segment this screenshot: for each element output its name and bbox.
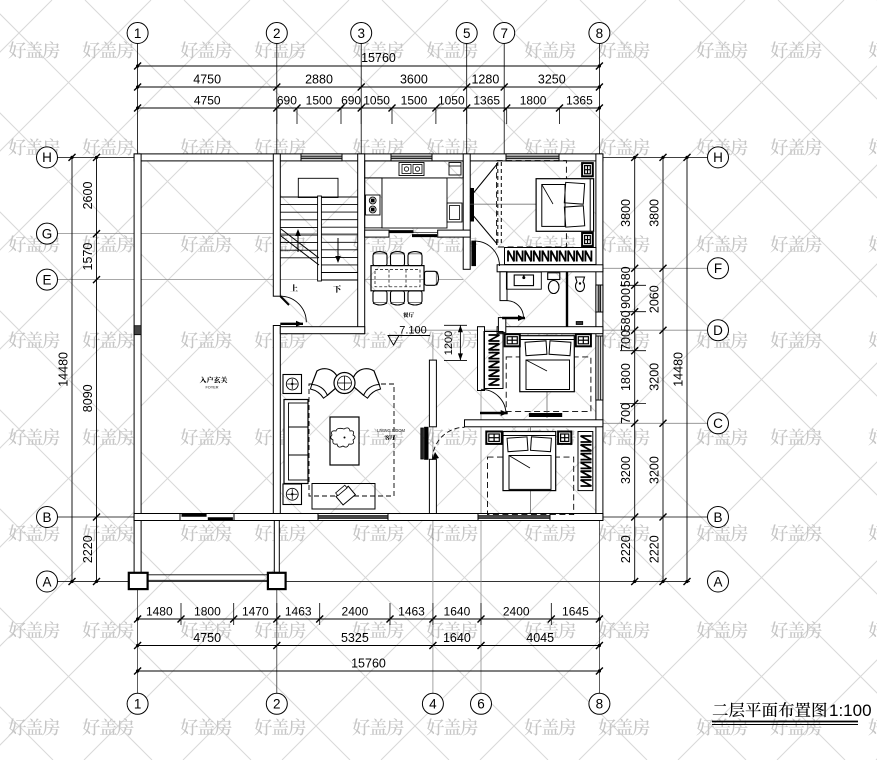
svg-text:5: 5 (463, 26, 471, 41)
svg-text:1640: 1640 (444, 605, 471, 619)
svg-text:1365: 1365 (566, 94, 593, 108)
svg-text:LIVING ROOM: LIVING ROOM (377, 428, 405, 433)
svg-text:1365: 1365 (473, 94, 500, 108)
svg-text:G: G (42, 226, 53, 241)
svg-text:FOYER: FOYER (205, 386, 218, 390)
svg-text:3: 3 (357, 26, 365, 41)
svg-text:8: 8 (596, 26, 604, 41)
svg-text:3200: 3200 (619, 456, 633, 484)
svg-text:1480: 1480 (146, 605, 173, 619)
svg-text:8: 8 (596, 697, 604, 712)
svg-text:D: D (713, 323, 723, 338)
svg-text:900: 900 (619, 288, 633, 309)
svg-text:8090: 8090 (81, 384, 95, 412)
svg-text:580: 580 (619, 266, 633, 287)
svg-text:B: B (42, 510, 51, 525)
svg-text:2880: 2880 (305, 73, 333, 87)
svg-text:15760: 15760 (351, 657, 386, 671)
svg-text:2600: 2600 (81, 182, 95, 210)
svg-text:14480: 14480 (672, 352, 686, 387)
svg-text:7.100: 7.100 (399, 325, 427, 337)
svg-text:A: A (42, 574, 51, 589)
svg-text:1: 1 (134, 26, 142, 41)
svg-text:2400: 2400 (503, 605, 530, 619)
svg-text:B: B (713, 510, 722, 525)
svg-text:2400: 2400 (342, 605, 369, 619)
svg-text:690: 690 (341, 94, 361, 108)
svg-text:1280: 1280 (471, 73, 499, 87)
svg-text:2060: 2060 (648, 285, 662, 313)
svg-text:1: 1 (134, 697, 142, 712)
svg-text:1800: 1800 (619, 363, 633, 391)
svg-text:2: 2 (273, 697, 281, 712)
svg-text:1050: 1050 (363, 94, 390, 108)
svg-text:1640: 1640 (443, 631, 471, 645)
svg-text:F: F (714, 261, 722, 276)
svg-text:3250: 3250 (538, 73, 566, 87)
svg-text:15760: 15760 (361, 51, 396, 65)
svg-text:1645: 1645 (562, 605, 589, 619)
svg-text:3200: 3200 (648, 456, 662, 484)
svg-text:E: E (42, 272, 51, 287)
svg-text:2220: 2220 (619, 535, 633, 563)
svg-text:1463: 1463 (398, 605, 425, 619)
svg-text:2220: 2220 (81, 535, 95, 563)
svg-text:3800: 3800 (648, 199, 662, 227)
svg-text:4750: 4750 (193, 631, 221, 645)
svg-text:690: 690 (277, 94, 297, 108)
svg-text:1800: 1800 (520, 94, 547, 108)
svg-text:1:100: 1:100 (829, 701, 872, 720)
svg-text:2220: 2220 (648, 535, 662, 563)
svg-text:1470: 1470 (242, 605, 269, 619)
svg-text:H: H (42, 150, 52, 165)
svg-text:1200: 1200 (443, 331, 455, 355)
svg-text:4750: 4750 (193, 73, 221, 87)
svg-text:C: C (713, 416, 723, 431)
svg-text:3600: 3600 (400, 73, 428, 87)
svg-text:580: 580 (619, 310, 633, 331)
svg-text:700: 700 (619, 330, 633, 351)
svg-text:14480: 14480 (57, 352, 71, 387)
svg-text:3200: 3200 (648, 363, 662, 391)
svg-text:4750: 4750 (194, 94, 221, 108)
svg-text:1050: 1050 (438, 94, 465, 108)
svg-text:4: 4 (429, 697, 437, 712)
svg-text:1800: 1800 (194, 605, 221, 619)
svg-text:7: 7 (500, 26, 508, 41)
svg-text:700: 700 (619, 403, 633, 424)
svg-text:1463: 1463 (285, 605, 312, 619)
svg-text:3800: 3800 (619, 199, 633, 227)
svg-text:1570: 1570 (81, 243, 95, 271)
svg-text:H: H (713, 150, 723, 165)
svg-text:1500: 1500 (306, 94, 333, 108)
svg-text:6: 6 (477, 697, 485, 712)
svg-text:1500: 1500 (401, 94, 428, 108)
svg-text:5325: 5325 (341, 631, 369, 645)
svg-text:A: A (713, 574, 722, 589)
svg-text:2: 2 (273, 26, 281, 41)
svg-text:4045: 4045 (526, 631, 554, 645)
